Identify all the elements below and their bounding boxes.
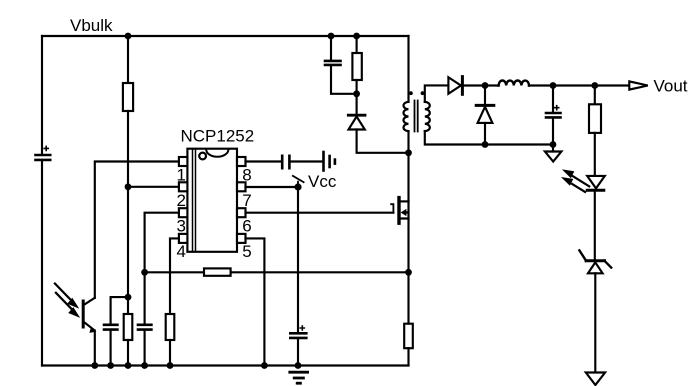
capacitor pin8 series <box>282 156 322 168</box>
capacitor bulk input (polarized) <box>36 146 51 160</box>
node junction Vcc <box>294 183 301 190</box>
transistor Q1 MOSFET <box>391 198 408 273</box>
capacitor CS filter <box>138 272 151 365</box>
wire pin8 <box>246 160 282 162</box>
svg-text:NCP1252: NCP1252 <box>181 127 255 146</box>
pin 8 <box>237 157 246 166</box>
wire pin1 net <box>95 162 179 298</box>
wire Vcc vertical <box>297 187 299 332</box>
LED emission arrows <box>561 169 589 192</box>
svg-text:4: 4 <box>177 242 186 261</box>
resistor sense horizontal <box>204 268 231 275</box>
snubber node dots <box>328 33 335 40</box>
capacitor snubber <box>325 36 357 94</box>
pin 3 <box>179 208 188 217</box>
wire pin3 net <box>145 213 179 273</box>
node junction source-sense <box>405 269 412 276</box>
node junction shunt diode bottom <box>482 141 489 148</box>
svg-text:Vcc: Vcc <box>308 172 337 191</box>
pin 4 <box>179 234 188 243</box>
svg-text:Vout: Vout <box>654 77 688 96</box>
diode Zener TL431-like <box>579 250 611 372</box>
capacitor output (polarized) <box>546 86 561 145</box>
diode shunt secondary <box>476 86 494 145</box>
ground secondary lower <box>586 373 605 386</box>
resistor sense vertical <box>404 272 413 365</box>
pin 7 <box>237 182 246 191</box>
wire pin2 <box>128 186 179 188</box>
wire Vcc cap to ground <box>297 339 299 365</box>
node junction sense left <box>141 269 148 276</box>
wire left rail lower <box>41 161 43 365</box>
svg-text:Vbulk: Vbulk <box>70 16 113 35</box>
wire bottom rail <box>42 364 409 366</box>
wire left rail upper <box>41 36 43 154</box>
ground earth primary <box>290 372 308 383</box>
ground secondary output <box>545 152 562 162</box>
wire pin6 gate drive <box>246 212 394 214</box>
node junction diode out <box>482 82 489 89</box>
resistor divider lower <box>124 314 133 366</box>
node junction output cap <box>550 82 557 89</box>
svg-text:6: 6 <box>242 217 251 236</box>
node junction pin5 ground <box>261 362 268 369</box>
node junction snubber RC <box>353 90 360 97</box>
pin 5 <box>237 234 246 243</box>
capacitor feedback (left small) <box>104 297 128 365</box>
node junction drain <box>405 149 412 156</box>
transformer T1 <box>404 36 553 201</box>
wire current sense line <box>145 271 409 273</box>
svg-text:7: 7 <box>242 191 251 210</box>
node junction cap ground <box>550 141 557 148</box>
arrow Vout <box>629 81 648 89</box>
node junction LED branch <box>591 82 598 89</box>
node junction cap-divider <box>125 294 132 301</box>
node junction bottom rail dots <box>91 362 98 369</box>
wire FB divider vertical <box>127 187 129 314</box>
diode output rectifier <box>448 77 485 95</box>
ground sideways (pin8) <box>324 152 335 171</box>
wire Vout rail <box>553 84 629 86</box>
opto light arrows <box>55 284 80 318</box>
resistor snubber <box>352 36 361 115</box>
LED D1 <box>587 176 605 259</box>
svg-text:2: 2 <box>177 191 186 210</box>
pin 2 <box>179 182 188 191</box>
wire pin4 net <box>170 238 179 314</box>
svg-text:3: 3 <box>177 217 186 236</box>
wire pin7 Vcc <box>246 186 299 188</box>
pin 6 <box>237 208 246 217</box>
node junction Vcc ground <box>295 362 302 369</box>
resistor Rt timing <box>166 314 175 366</box>
wire pin5 net <box>246 238 265 365</box>
node junction pin2 <box>125 183 132 190</box>
wire top rail <box>42 35 409 37</box>
resistor Vbulk upper <box>123 36 133 187</box>
inductor output filter <box>485 80 553 85</box>
IC U1 NCP1252 body (DIP-8) <box>187 149 237 252</box>
supply tap Vcc <box>293 176 304 187</box>
node junction Vbulk <box>125 33 132 40</box>
diode snubber clamp <box>348 115 408 153</box>
pin 1 <box>179 157 188 166</box>
resistor LED bias <box>589 86 601 176</box>
capacitor Vcc (polarized) <box>290 326 306 338</box>
svg-text:5: 5 <box>242 242 251 261</box>
transistor Q opto phototransistor <box>83 298 96 366</box>
